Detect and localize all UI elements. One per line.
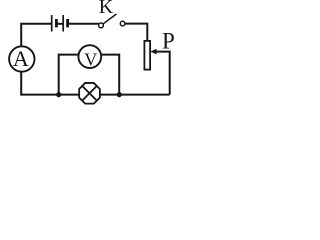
svg-text:K: K — [99, 0, 114, 18]
svg-text:P: P — [162, 28, 175, 53]
svg-text:A: A — [13, 46, 29, 71]
svg-text:V: V — [84, 49, 97, 69]
